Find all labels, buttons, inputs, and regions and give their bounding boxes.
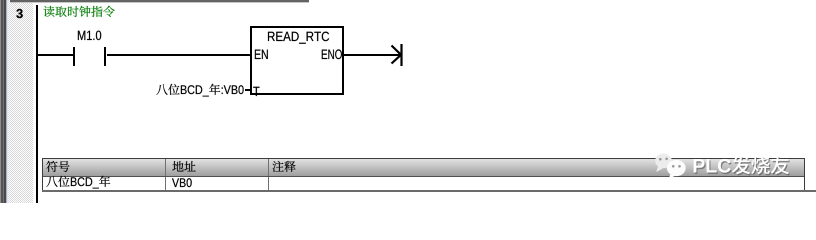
wire: contact to EN input — [107, 54, 251, 56]
pin label EN — [254, 43, 271, 65]
contact M1.0 right bar — [104, 47, 106, 66]
header cell 符号 — [46, 157, 73, 177]
contact M1.0 left bar — [73, 47, 75, 66]
watermark chat-bubble icon — [650, 147, 690, 179]
header cell 地址 — [172, 157, 199, 177]
watermark text PLC发烧友 — [692, 152, 793, 180]
table bottom rule (full width) — [42, 190, 816, 191]
symbol table header row — [43, 159, 804, 176]
wire: ENO output — [344, 54, 400, 56]
contact operand label M1.0 — [77, 24, 104, 46]
table column divider 2 — [268, 159, 269, 191]
header cell 注释 — [272, 157, 299, 177]
network comment: 读取时钟指令 — [43, 2, 118, 22]
left power rail — [36, 5, 39, 203]
network number 3 — [16, 3, 26, 25]
left window border — [0, 0, 8, 203]
left gutter checkered background — [8, 0, 33, 203]
data cell 八位BCD_年 — [46, 172, 113, 193]
table column divider 1 — [165, 159, 166, 191]
operand label for T: 八位BCD_年:VB0 — [156, 80, 247, 101]
wire: rail to contact — [37, 54, 73, 56]
table header/body divider — [43, 176, 804, 177]
pin label ENO — [321, 43, 345, 65]
pin label T — [253, 81, 262, 103]
data cell VB0 — [172, 173, 195, 194]
open wire arrow terminator — [386, 40, 406, 70]
block title READ_RTC — [267, 26, 332, 48]
symbol table frame — [42, 158, 805, 191]
top window edge — [10, 0, 309, 3]
wire stub: operand to T pin — [245, 89, 251, 92]
function block READ_RTC box — [250, 26, 344, 95]
